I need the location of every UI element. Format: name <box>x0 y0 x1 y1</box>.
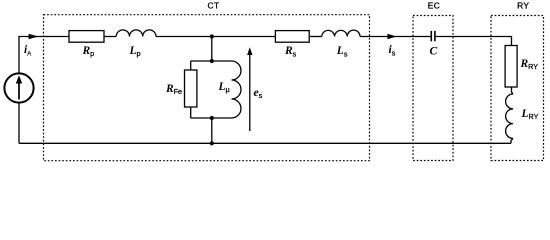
wire source top lead <box>19 37 69 74</box>
inductor L_p <box>116 30 156 37</box>
dashed box CT <box>44 15 370 161</box>
dashed box RY <box>491 16 544 161</box>
arrow i_s <box>387 34 396 39</box>
inductor L_s <box>322 30 360 36</box>
arrow e_s <box>247 47 252 131</box>
resistor R_s <box>275 31 309 43</box>
inductor L_mu <box>232 61 242 118</box>
wire branch top connector <box>191 60 232 62</box>
svg-text:RY: RY <box>517 0 529 10</box>
resistor R_p <box>69 31 104 43</box>
wire L_s to capacitor <box>360 36 431 38</box>
wire bottom rail <box>19 142 511 144</box>
svg-text:CT: CT <box>208 0 220 10</box>
resistor R_Fe <box>185 70 197 107</box>
wire magnetizing branch top <box>211 37 213 62</box>
wire branch bottom connector <box>191 117 232 119</box>
wire capacitor to RY <box>436 37 512 46</box>
arrow i_A <box>29 34 39 39</box>
capacitor C <box>431 31 435 41</box>
wire R_s to L_s <box>309 36 322 38</box>
svg-text:EC: EC <box>428 0 440 10</box>
wire R_Fe top stub <box>190 61 192 70</box>
resistor R_RY <box>505 46 517 88</box>
wire L_RY bottom lead <box>511 138 513 143</box>
dashed box EC <box>413 16 453 161</box>
node junction branch top <box>210 59 214 63</box>
svg-text:C: C <box>430 45 438 57</box>
wire R_Fe bottom stub <box>190 107 192 118</box>
wire magnetizing branch bottom <box>211 118 213 143</box>
wire L_p to R_s <box>156 36 275 38</box>
wire source bottom lead <box>18 103 20 144</box>
wire R_RY to L_RY <box>512 87 514 94</box>
node junction top <box>210 34 214 38</box>
node junction branch bottom <box>210 116 214 120</box>
current source I <box>4 73 33 102</box>
node junction bottom <box>210 141 214 145</box>
inductor L_RY <box>506 94 513 138</box>
wire R_p to L_p <box>104 36 116 38</box>
